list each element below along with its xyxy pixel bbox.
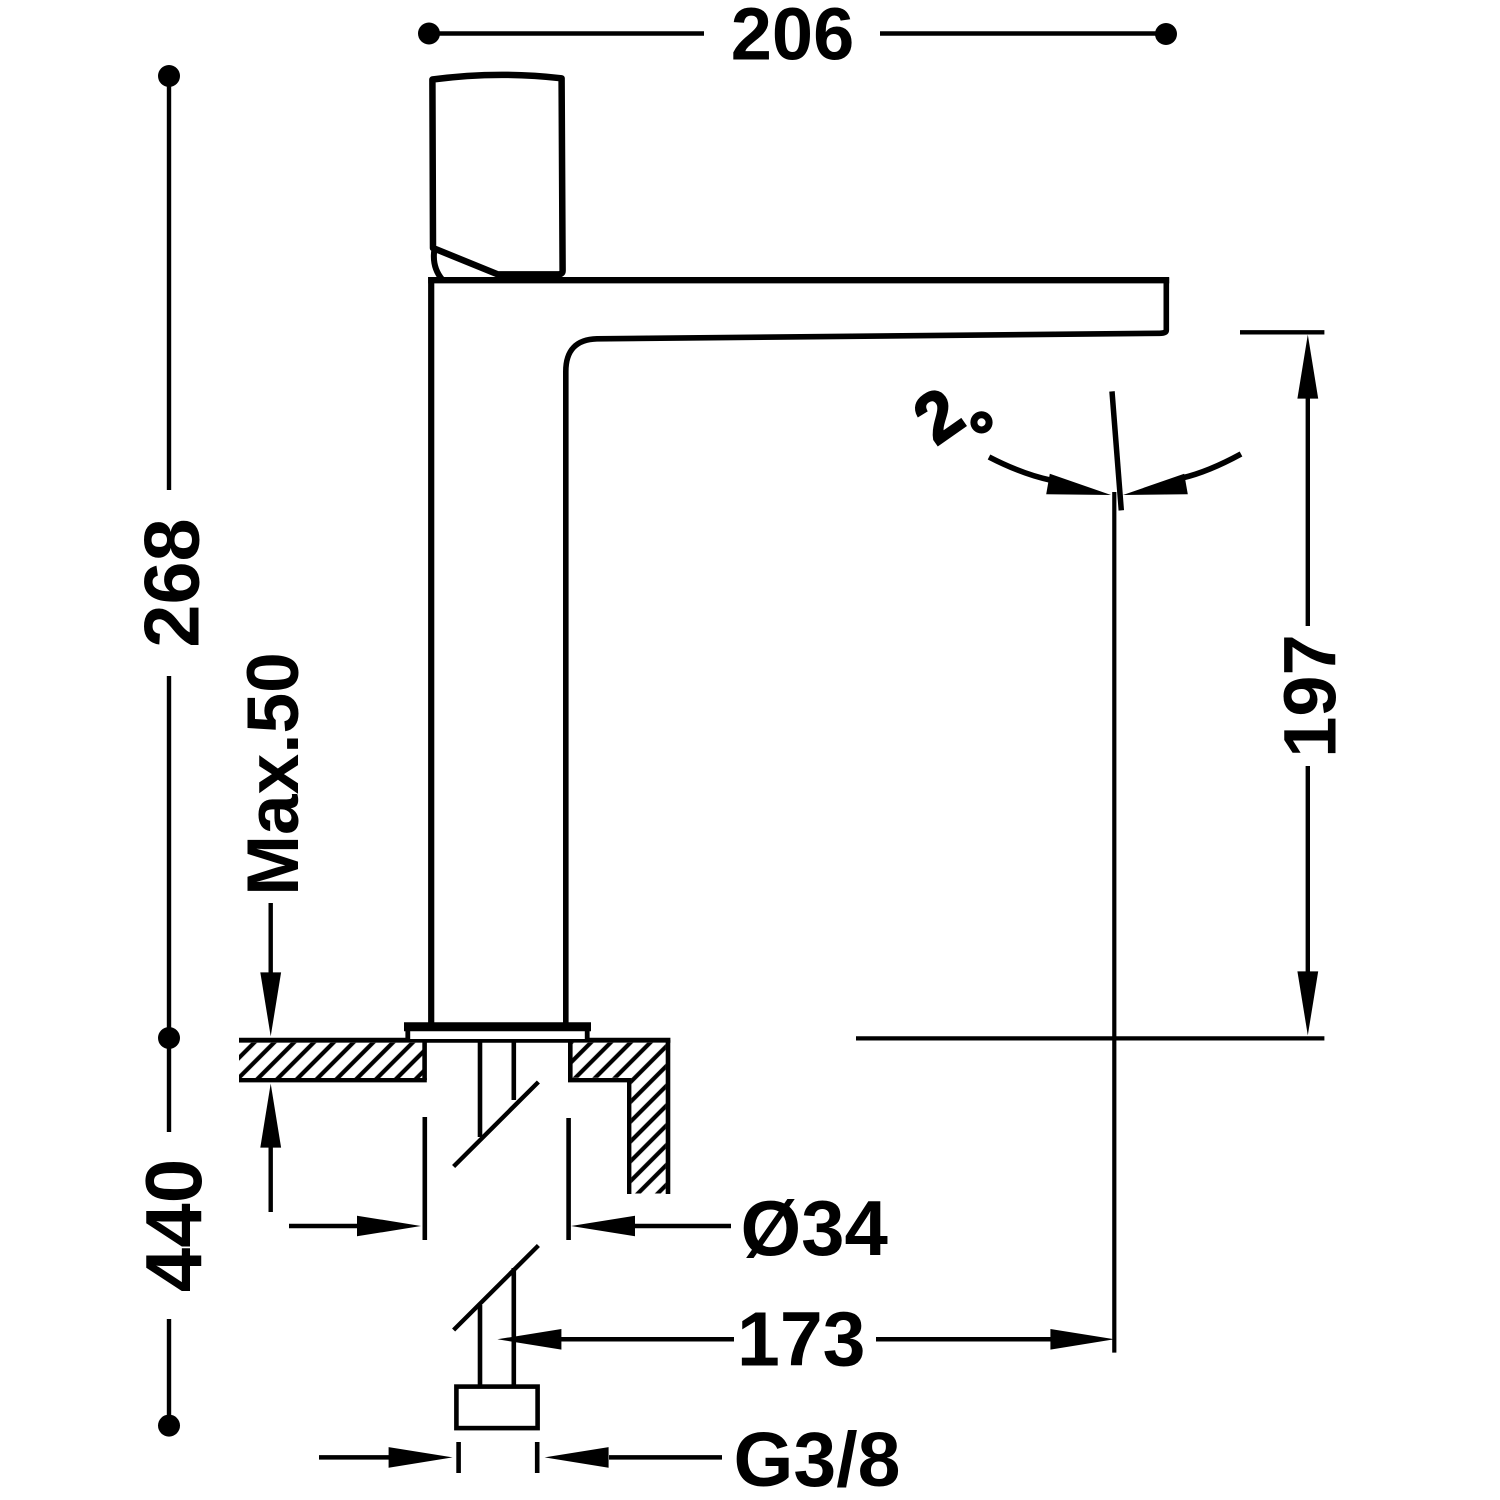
countertop left slab bottom line [239, 1078, 427, 1082]
dim 197 upper arrowhead [1297, 335, 1318, 399]
shank upper left line [478, 1040, 483, 1137]
shank lower right line [511, 1268, 516, 1388]
svg-text:173: 173 [737, 1297, 865, 1383]
countertop left slab hatch [239, 1043, 424, 1078]
dim O34 left extension line [422, 1117, 427, 1240]
svg-text:Max.50: Max.50 [233, 652, 314, 896]
dim Max.50 lower arrow stem [269, 1144, 273, 1212]
dim O34 left arrow [289, 1224, 365, 1229]
svg-text:197: 197 [1269, 634, 1352, 757]
dim G3/8 left arrow [319, 1455, 392, 1460]
dim 268 line upper [167, 84, 171, 490]
svg-text:268: 268 [130, 518, 216, 647]
supply nut [456, 1387, 537, 1429]
dim O34 right arrow [628, 1224, 731, 1229]
dim Max.50 upper arrow stem [269, 903, 273, 976]
svg-text:G3/8: G3/8 [734, 1417, 901, 1500]
dim 197 top tick [1240, 330, 1324, 334]
dim 206 line right [880, 31, 1160, 36]
dim G3/8 right tick [535, 1442, 540, 1473]
svg-text:Ø34: Ø34 [741, 1184, 888, 1272]
column left edge [428, 277, 434, 1023]
svg-text:440: 440 [129, 1159, 218, 1292]
2 deg left arc [989, 457, 1050, 480]
dim 173 right arrowhead [1050, 1329, 1114, 1350]
dim Max.50 upper arrowhead [260, 972, 281, 1036]
dim 268/440 shared dot [158, 1027, 180, 1049]
dim G3/8 left tick [456, 1442, 461, 1473]
dim 173 right line [876, 1337, 1057, 1342]
dim 197 bottom reference line [856, 1036, 1324, 1040]
dim 173 left arrowhead [497, 1329, 561, 1350]
countertop right leg outer edge [666, 1040, 671, 1194]
dim 268 line lower [167, 676, 171, 1030]
countertop right slab hatch (L-shape) [570, 1043, 666, 1194]
dim 206 dot left [418, 23, 440, 45]
dim 440 dot bottom [158, 1415, 180, 1437]
svg-text:206: 206 [731, 0, 854, 76]
2 deg right arc [1182, 454, 1241, 478]
dim G3/8 right arrow [609, 1455, 722, 1460]
2 deg left arrowhead [1046, 474, 1111, 495]
faucet handle outline [432, 75, 562, 275]
base flange thick top edge [404, 1022, 591, 1031]
dim 268 dot top [158, 65, 180, 87]
dim 206 dot right [1155, 23, 1177, 45]
shank upper right line [511, 1040, 516, 1100]
shank break slash A [454, 1082, 539, 1167]
countertop hole right wall [568, 1041, 573, 1080]
base flange [408, 1025, 587, 1039]
2 deg right arrowhead [1123, 474, 1188, 495]
countertop right slab bottom segment [568, 1078, 631, 1082]
shank break slash B [454, 1246, 539, 1331]
handle base curve [434, 249, 443, 280]
spout axis vertical line [1112, 492, 1116, 1353]
countertop hole left wall [422, 1041, 427, 1080]
spout top bar [428, 277, 1169, 283]
dim 197 lower line [1306, 766, 1310, 975]
2 deg tilted line [1112, 391, 1121, 510]
dim 440 line lower [167, 1319, 171, 1418]
countertop top surface line [239, 1038, 670, 1043]
2 deg degree circle [974, 415, 989, 430]
shank lower left line [478, 1305, 483, 1388]
spout underside and inner column edge [566, 278, 1167, 1023]
countertop right leg inner edge [627, 1078, 631, 1194]
dim Max.50 lower arrowhead [260, 1084, 281, 1148]
dim O34 right extension line [566, 1118, 571, 1240]
dim 206 line left [436, 31, 704, 36]
dim 440 line upper [167, 1046, 171, 1132]
dim 173 left line [556, 1337, 734, 1342]
dim 197 upper line [1306, 395, 1310, 626]
dim 197 lower arrowhead [1297, 971, 1318, 1035]
